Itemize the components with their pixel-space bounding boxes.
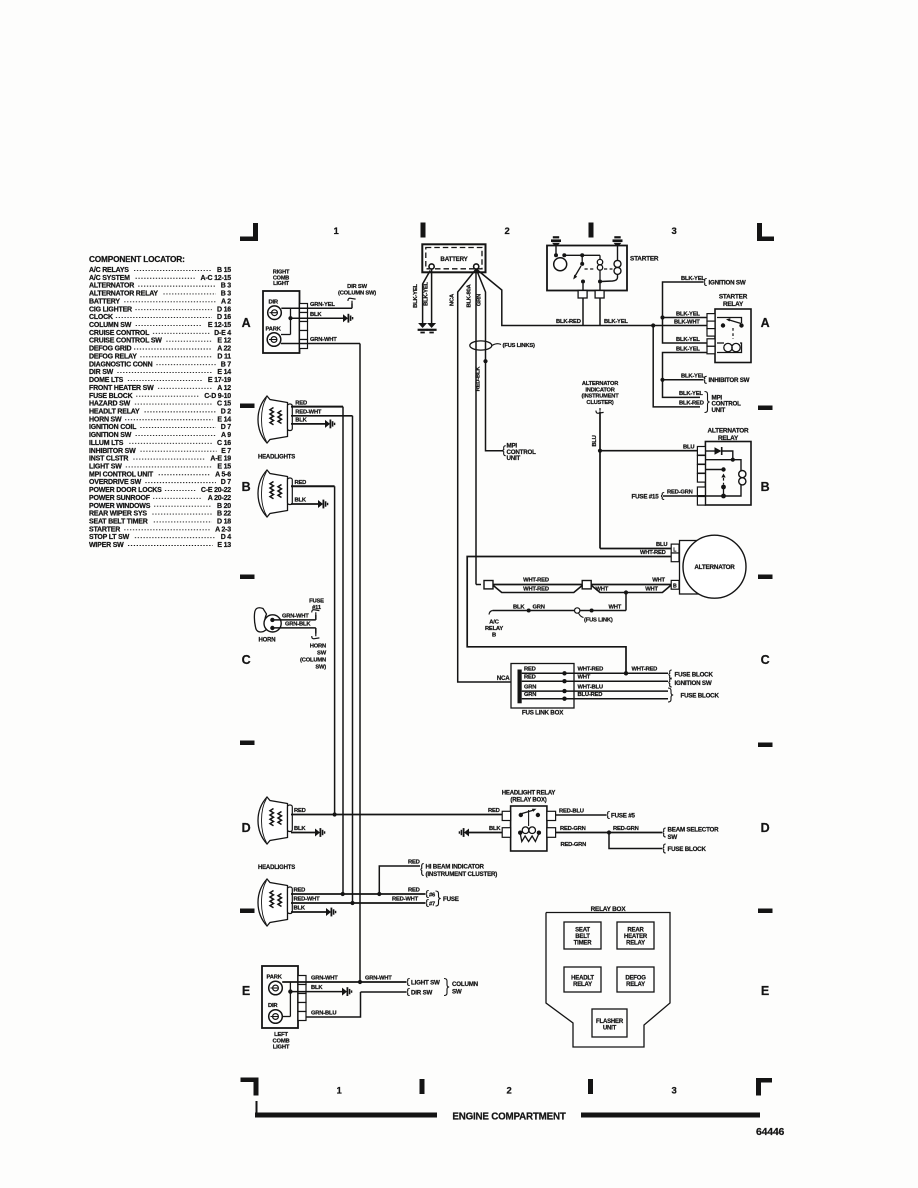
svg-text:DOME LTS: DOME LTS <box>89 377 124 384</box>
svg-text:MPI CONTROL UNIT: MPI CONTROL UNIT <box>89 471 154 478</box>
svg-text:BLU: BLU <box>592 435 598 446</box>
svg-text:ILLUM LTS: ILLUM LTS <box>89 440 124 447</box>
svg-text:D: D <box>761 821 770 835</box>
svg-text:TIMER: TIMER <box>574 941 593 947</box>
svg-text:RED: RED <box>295 401 307 407</box>
svg-text:B 3: B 3 <box>221 283 232 290</box>
svg-text:HEADLIGHTS: HEADLIGHTS <box>258 455 295 461</box>
svg-text:C: C <box>242 653 251 667</box>
svg-text:FRONT HEATER SW: FRONT HEATER SW <box>89 385 154 392</box>
svg-text:COMPONENT LOCATOR:: COMPONENT LOCATOR: <box>89 254 185 264</box>
svg-text:IGNITION SW: IGNITION SW <box>675 680 712 687</box>
svg-text:BLK: BLK <box>310 312 322 318</box>
svg-text:SEAT: SEAT <box>575 928 590 934</box>
svg-text:D 11: D 11 <box>217 353 231 360</box>
svg-text:CIG LIGHTER: CIG LIGHTER <box>89 306 132 313</box>
svg-text:E 7: E 7 <box>221 448 231 455</box>
svg-text:#11: #11 <box>312 605 322 611</box>
svg-text:PARK: PARK <box>267 975 283 981</box>
svg-text:UNIT: UNIT <box>712 407 726 414</box>
svg-text:IGNITION SW: IGNITION SW <box>709 279 746 286</box>
svg-text:A 5-6: A 5-6 <box>215 471 231 478</box>
svg-text:BLK-YEL: BLK-YEL <box>681 374 705 380</box>
svg-text:CLOCK: CLOCK <box>89 314 113 321</box>
svg-text:(COLUMN SW): (COLUMN SW) <box>338 291 376 297</box>
svg-text:(INSTRUMENT CLUSTER): (INSTRUMENT CLUSTER) <box>426 871 498 878</box>
svg-text:WHT-BLU: WHT-BLU <box>578 685 603 691</box>
svg-text:ENGINE COMPARTMENT: ENGINE COMPARTMENT <box>452 1112 565 1123</box>
svg-text:LIGHT: LIGHT <box>273 281 290 287</box>
svg-text:BLK-YEL: BLK-YEL <box>681 276 705 282</box>
svg-text:BEAM SELECTOR: BEAM SELECTOR <box>668 826 720 833</box>
svg-text:DEFOG RELAY: DEFOG RELAY <box>89 353 137 360</box>
svg-text:DIR SW: DIR SW <box>347 284 367 290</box>
svg-text:SW: SW <box>452 988 462 995</box>
svg-text:BATTERY: BATTERY <box>440 256 468 263</box>
svg-text:(FUS LINKS): (FUS LINKS) <box>503 343 536 349</box>
svg-text:B: B <box>492 633 496 639</box>
svg-text:3: 3 <box>671 1086 676 1097</box>
svg-text:A 20-22: A 20-22 <box>208 495 232 502</box>
svg-text:A 9: A 9 <box>221 432 231 439</box>
svg-text:SW): SW) <box>315 665 326 671</box>
svg-text:WHT: WHT <box>578 675 591 681</box>
svg-text:RED-WHT: RED-WHT <box>295 409 322 415</box>
svg-text:BLK: BLK <box>311 985 323 991</box>
svg-text:B: B <box>673 584 677 590</box>
svg-text:C: C <box>761 653 770 667</box>
svg-text:E: E <box>761 984 769 998</box>
svg-text:B 20: B 20 <box>217 503 231 510</box>
svg-text:A 2: A 2 <box>221 298 231 305</box>
svg-text:D 2: D 2 <box>221 408 232 415</box>
svg-text:HEADLT: HEADLT <box>571 976 594 982</box>
svg-text:E 14: E 14 <box>217 416 231 423</box>
svg-text:WHT-RED: WHT-RED <box>640 550 666 556</box>
svg-text:BLK: BLK <box>294 826 306 832</box>
svg-text:POWER DOOR LOCKS: POWER DOOR LOCKS <box>89 487 162 494</box>
svg-text:B: B <box>761 480 770 494</box>
svg-text:STARTER: STARTER <box>719 294 748 301</box>
svg-text:2: 2 <box>506 1086 511 1097</box>
svg-text:BLU: BLU <box>656 542 667 548</box>
svg-text:CRUISE CONTROL: CRUISE CONTROL <box>89 330 150 337</box>
svg-text:BLK: BLK <box>295 498 307 504</box>
svg-text:WHT: WHT <box>609 604 622 610</box>
svg-text:A/C: A/C <box>489 620 499 626</box>
svg-text:A 22: A 22 <box>217 346 231 353</box>
svg-text:IGNITION COIL: IGNITION COIL <box>89 424 137 431</box>
svg-text:WHT: WHT <box>652 578 665 584</box>
svg-text:LEFT: LEFT <box>274 1032 288 1038</box>
svg-text:BLK-80A: BLK-80A <box>467 283 473 307</box>
svg-text:STARTER: STARTER <box>89 526 120 533</box>
svg-text:PARK: PARK <box>266 327 282 333</box>
svg-text:IGNITION SW: IGNITION SW <box>89 432 132 439</box>
svg-text:RED-GRN: RED-GRN <box>613 826 639 832</box>
svg-text:FUSE BLOCK: FUSE BLOCK <box>89 393 133 400</box>
svg-text:REAR WIPER SYS: REAR WIPER SYS <box>89 511 147 518</box>
svg-text:GRN-YEL: GRN-YEL <box>310 302 335 308</box>
svg-text:WHT-RED: WHT-RED <box>632 667 658 673</box>
svg-text:COMB: COMB <box>273 1038 290 1044</box>
svg-text:HEATER: HEATER <box>624 934 648 940</box>
svg-text:D-E 4: D-E 4 <box>214 330 231 337</box>
svg-text:D 18: D 18 <box>217 519 231 526</box>
svg-text:HAZARD SW: HAZARD SW <box>89 401 131 408</box>
svg-text:RELAY: RELAY <box>723 301 744 308</box>
svg-text:3: 3 <box>671 226 676 237</box>
svg-text:HI BEAM INDICATOR: HI BEAM INDICATOR <box>426 863 485 870</box>
svg-text:ALTERNATOR: ALTERNATOR <box>582 381 618 387</box>
svg-text:RED-WHT: RED-WHT <box>294 897 321 903</box>
svg-text:INST CLSTR: INST CLSTR <box>89 456 128 463</box>
svg-text:FUSE BLOCK: FUSE BLOCK <box>668 846 707 853</box>
svg-text:E 15: E 15 <box>217 464 231 471</box>
svg-text:RED: RED <box>294 888 306 894</box>
svg-text:INHIBITOR SW: INHIBITOR SW <box>89 448 136 455</box>
svg-text:BELT: BELT <box>575 934 590 940</box>
svg-text:D 16: D 16 <box>217 314 231 321</box>
svg-text:DIR: DIR <box>269 300 279 306</box>
svg-text:LIGHT SW: LIGHT SW <box>411 979 440 986</box>
svg-text:BLK-YEL: BLK-YEL <box>423 281 429 305</box>
svg-text:BATTERY: BATTERY <box>89 298 120 305</box>
svg-text:BLK-WHT: BLK-WHT <box>674 319 700 325</box>
svg-text:FUSE #5: FUSE #5 <box>611 812 635 819</box>
svg-text:B: B <box>242 480 251 494</box>
svg-text:WHT-RED: WHT-RED <box>523 578 549 584</box>
svg-text:A-C 12-15: A-C 12-15 <box>201 275 232 282</box>
svg-text:DIAGNOSTIC CONN: DIAGNOSTIC CONN <box>89 361 153 368</box>
svg-text:INDICATOR: INDICATOR <box>585 387 614 393</box>
svg-text:SEAT BELT TIMER: SEAT BELT TIMER <box>89 519 148 526</box>
svg-text:B 3: B 3 <box>221 291 232 298</box>
svg-text:DEFOG GRID: DEFOG GRID <box>89 346 131 353</box>
svg-text:DEFOG: DEFOG <box>625 976 646 982</box>
svg-text:LIGHT SW: LIGHT SW <box>89 464 122 471</box>
svg-text:BLU: BLU <box>683 444 694 450</box>
svg-text:HORN SW: HORN SW <box>89 416 122 423</box>
svg-text:REAR: REAR <box>627 928 644 934</box>
svg-text:STOP LT SW: STOP LT SW <box>89 534 130 541</box>
svg-text:FUSE BLOCK: FUSE BLOCK <box>681 692 720 699</box>
svg-text:WIPER SW: WIPER SW <box>89 542 124 549</box>
svg-text:BLK-YEL: BLK-YEL <box>676 311 700 317</box>
svg-text:C 15: C 15 <box>217 401 231 408</box>
svg-text:D: D <box>242 821 251 835</box>
svg-text:E 14: E 14 <box>217 369 231 376</box>
svg-text:RED: RED <box>524 667 536 673</box>
svg-text:LIGHT: LIGHT <box>273 1045 290 1051</box>
svg-text:NCA: NCA <box>449 293 455 306</box>
svg-text:(COLUMN: (COLUMN <box>300 658 326 664</box>
svg-text:BLK: BLK <box>294 906 306 912</box>
svg-text:SW: SW <box>668 834 678 841</box>
svg-text:RELAY: RELAY <box>626 982 645 988</box>
svg-text:GRN: GRN <box>524 692 536 698</box>
svg-text:POWER SUNROOF: POWER SUNROOF <box>89 495 151 502</box>
svg-text:64446: 64446 <box>756 1126 785 1138</box>
svg-text:WHT-RED: WHT-RED <box>578 667 604 673</box>
svg-text:GRN: GRN <box>476 294 482 306</box>
svg-text:E 12-15: E 12-15 <box>208 322 231 329</box>
svg-text:RED-GRN: RED-GRN <box>561 842 587 848</box>
svg-text:FUSE BLOCK: FUSE BLOCK <box>675 672 714 679</box>
svg-text:BLK: BLK <box>513 604 525 610</box>
svg-text:A: A <box>242 316 251 330</box>
svg-text:RED: RED <box>524 675 536 681</box>
svg-text:HEADLT RELAY: HEADLT RELAY <box>89 408 140 415</box>
svg-text:RELAY: RELAY <box>485 626 503 632</box>
svg-text:FUS LINK BOX: FUS LINK BOX <box>522 710 564 717</box>
svg-text:FLASHER: FLASHER <box>596 1019 624 1025</box>
svg-text:E 12: E 12 <box>217 338 231 345</box>
svg-text:BLK-RED: BLK-RED <box>679 401 704 407</box>
svg-text:BLK-YEL: BLK-YEL <box>676 337 700 343</box>
svg-text:C-D 9-10: C-D 9-10 <box>204 393 231 400</box>
svg-text:RED-GRN: RED-GRN <box>560 826 586 832</box>
svg-text:B 22: B 22 <box>217 511 231 518</box>
svg-text:D 7: D 7 <box>221 479 232 486</box>
svg-text:BLK-YEL: BLK-YEL <box>413 283 419 307</box>
svg-text:NCA: NCA <box>497 675 511 682</box>
svg-text:A: A <box>761 316 770 330</box>
svg-text:BLK-YEL: BLK-YEL <box>679 391 703 397</box>
svg-text:FUSE #15: FUSE #15 <box>632 493 660 500</box>
svg-text:GRN-BLU: GRN-BLU <box>311 1011 336 1017</box>
svg-text:BLK-YEL: BLK-YEL <box>604 319 628 325</box>
svg-text:BLU-RED: BLU-RED <box>578 692 603 698</box>
svg-text:RED-GRN: RED-GRN <box>667 490 693 496</box>
svg-text:2: 2 <box>504 226 509 237</box>
svg-text:D 7: D 7 <box>221 424 232 431</box>
svg-text:WHT-RED: WHT-RED <box>523 587 549 593</box>
svg-text:CLUSTER): CLUSTER) <box>586 400 613 406</box>
svg-text:GRN-WHT: GRN-WHT <box>282 614 309 620</box>
svg-text:GRN-WHT: GRN-WHT <box>310 337 337 343</box>
svg-text:(INSTRUMENT: (INSTRUMENT <box>582 394 620 400</box>
svg-text:BLK-YEL: BLK-YEL <box>676 346 700 352</box>
svg-text:ALTERNATOR: ALTERNATOR <box>708 428 750 435</box>
svg-text:DIR: DIR <box>268 1003 278 1009</box>
svg-text:A 2-3: A 2-3 <box>215 526 231 533</box>
svg-text:D 16: D 16 <box>217 306 231 313</box>
svg-text:E 13: E 13 <box>217 542 231 549</box>
svg-text:DIR SW: DIR SW <box>411 989 433 996</box>
svg-text:INHIBITOR SW: INHIBITOR SW <box>709 377 750 384</box>
svg-text:RED-BLU: RED-BLU <box>559 809 584 815</box>
svg-text:BLK: BLK <box>489 826 501 832</box>
svg-text:C-E 20-22: C-E 20-22 <box>201 487 231 494</box>
svg-text:RED: RED <box>295 480 307 486</box>
svg-text:RED-BLK: RED-BLK <box>475 366 481 392</box>
svg-text:A/C SYSTEM: A/C SYSTEM <box>89 275 130 282</box>
svg-text:CRUISE CONTROL SW: CRUISE CONTROL SW <box>89 338 162 345</box>
svg-text:E: E <box>242 984 250 998</box>
svg-text:COLUMN: COLUMN <box>452 981 479 988</box>
svg-text:GRN-BLK: GRN-BLK <box>285 622 311 628</box>
svg-text:HORN: HORN <box>259 638 276 644</box>
svg-text:GRN-WHT: GRN-WHT <box>311 976 338 982</box>
svg-text:B 15: B 15 <box>217 267 231 274</box>
svg-text:GRN: GRN <box>524 685 536 691</box>
svg-text:A-E 19: A-E 19 <box>210 456 231 463</box>
svg-text:STARTER: STARTER <box>630 256 659 263</box>
svg-text:(RELAY BOX): (RELAY BOX) <box>510 798 546 804</box>
svg-text:RED: RED <box>408 888 420 894</box>
svg-text:A 12: A 12 <box>217 385 231 392</box>
svg-text:RED: RED <box>294 808 306 814</box>
svg-text:OVERDRIVE SW: OVERDRIVE SW <box>89 479 142 486</box>
svg-text:UNIT: UNIT <box>603 1026 617 1032</box>
svg-text:ALTERNATOR: ALTERNATOR <box>694 564 735 571</box>
svg-text:E 17-19: E 17-19 <box>208 377 231 384</box>
svg-text:BLK-RED: BLK-RED <box>556 319 581 325</box>
svg-text:B 7: B 7 <box>221 361 232 368</box>
svg-text:GRN: GRN <box>533 604 545 610</box>
svg-text:WHT: WHT <box>595 587 608 593</box>
svg-text:HEADLIGHTS: HEADLIGHTS <box>258 865 295 871</box>
svg-text:A/C RELAYS: A/C RELAYS <box>89 267 129 274</box>
svg-text:HEADLIGHT RELAY: HEADLIGHT RELAY <box>502 791 556 797</box>
svg-text:WHT: WHT <box>645 587 658 593</box>
svg-text:RED: RED <box>488 808 500 814</box>
svg-text:HORN: HORN <box>310 644 326 650</box>
svg-text:RELAY: RELAY <box>573 982 592 988</box>
svg-text:BLK: BLK <box>295 418 307 424</box>
svg-text:C 16: C 16 <box>217 440 231 447</box>
svg-text:#6: #6 <box>429 892 436 898</box>
svg-text:RED: RED <box>408 860 420 866</box>
svg-text:FUSE: FUSE <box>443 896 459 903</box>
svg-text:ALTERNATOR: ALTERNATOR <box>89 283 134 290</box>
svg-text:(FUS LINK): (FUS LINK) <box>584 618 613 624</box>
svg-text:#7: #7 <box>429 901 435 907</box>
svg-text:RED-WHT: RED-WHT <box>392 897 419 903</box>
svg-text:COLUMN SW: COLUMN SW <box>89 322 132 329</box>
svg-text:UNIT: UNIT <box>507 455 521 462</box>
svg-text:POWER WINDOWS: POWER WINDOWS <box>89 503 151 510</box>
svg-text:FUSE: FUSE <box>309 599 324 605</box>
svg-text:D 4: D 4 <box>221 534 232 541</box>
svg-text:RELAY: RELAY <box>626 941 645 947</box>
svg-text:SW: SW <box>317 651 327 657</box>
svg-text:GRN-WHT: GRN-WHT <box>365 976 392 982</box>
svg-text:DIR SW: DIR SW <box>89 369 114 376</box>
svg-text:ALTERNATOR RELAY: ALTERNATOR RELAY <box>89 291 158 298</box>
